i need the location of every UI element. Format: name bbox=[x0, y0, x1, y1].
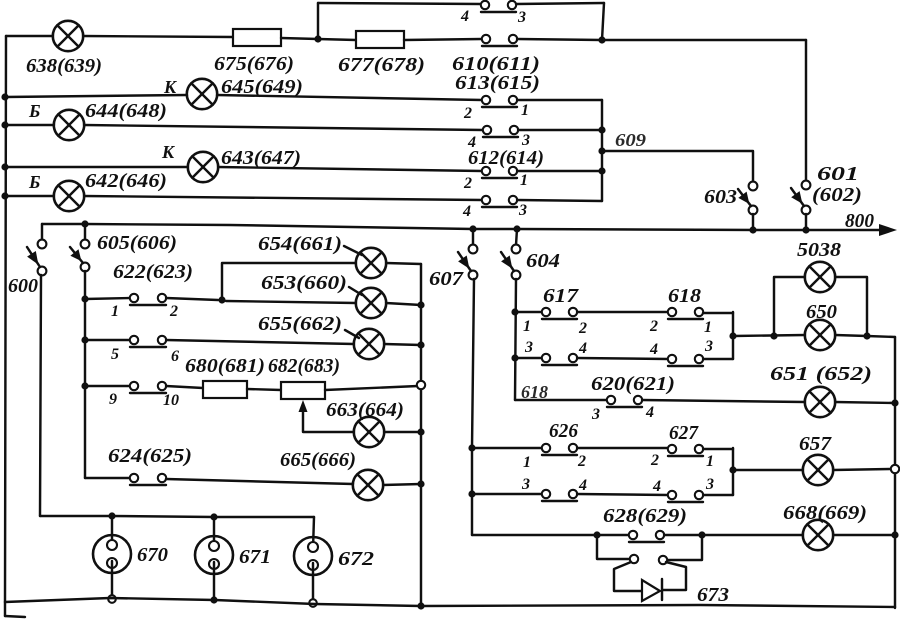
junction diode tap right bbox=[698, 531, 705, 538]
svg-text:627: 627 bbox=[669, 422, 699, 444]
wire bracket 617-618 bbox=[732, 312, 734, 359]
socket 672 bbox=[294, 537, 332, 575]
svg-text:618: 618 bbox=[668, 285, 701, 307]
lamp 657 bbox=[803, 455, 833, 485]
svg-text:10: 10 bbox=[163, 392, 179, 409]
wire row1 right bbox=[166, 298, 218, 300]
wire lamp638 left lead bbox=[6, 35, 53, 37]
svg-text:655(662): 655(662) bbox=[258, 313, 342, 335]
contact 627 pins 4-3 bbox=[668, 491, 703, 502]
wire 617 row2 left bbox=[515, 357, 542, 359]
svg-text:2: 2 bbox=[463, 105, 472, 122]
svg-text:1: 1 bbox=[523, 318, 531, 335]
contact 627 pins 2-1 bbox=[668, 445, 703, 456]
switch 605(606) bbox=[70, 240, 89, 272]
wire to lamp650 bbox=[733, 335, 805, 336]
wire resistor677 to contact610 bbox=[404, 39, 482, 40]
contact row644 pins 4-3 bbox=[483, 126, 518, 137]
svg-text:2: 2 bbox=[578, 320, 587, 337]
socket 670 bbox=[93, 535, 131, 573]
junction right node 668 bbox=[891, 531, 898, 538]
svg-text:4: 4 bbox=[462, 203, 471, 220]
svg-text:680(681): 680(681) bbox=[185, 355, 265, 377]
svg-text:4: 4 bbox=[460, 8, 469, 25]
wire row644 right bbox=[84, 125, 483, 130]
lamp 665(666) bbox=[353, 470, 383, 500]
wire switch600 top lead bbox=[41, 224, 43, 240]
contact 612(614) pins 2-1 bbox=[482, 167, 517, 178]
wire socket671 bottom lead bbox=[213, 562, 215, 600]
wire 624 to lamp665 bbox=[166, 479, 353, 484]
junction node A top bypass left bbox=[314, 35, 321, 42]
junction node B bbox=[598, 36, 605, 43]
svg-text:1: 1 bbox=[520, 172, 528, 189]
wire lamp665 right bbox=[383, 484, 421, 485]
wire row645 left bbox=[5, 95, 187, 97]
svg-text:1: 1 bbox=[523, 454, 531, 471]
wire branch to lamp654 bbox=[222, 263, 356, 300]
svg-text:642(646): 642(646) bbox=[85, 170, 167, 192]
contact 622 pins 1-2 bbox=[130, 294, 166, 305]
svg-text:663(664): 663(664) bbox=[326, 399, 404, 421]
svg-text:670: 670 bbox=[137, 544, 168, 566]
junction spine node row2 bbox=[81, 336, 88, 343]
contact 618 pins 2-1 bbox=[668, 308, 703, 319]
svg-text:626: 626 bbox=[549, 420, 578, 442]
wire switch604 top lead bbox=[516, 229, 517, 245]
junction bus node switch603 bbox=[749, 226, 756, 233]
wire row644 left bbox=[5, 124, 54, 126]
wire socket670 bottom lead bbox=[111, 561, 113, 599]
wire row645 to bracket bbox=[517, 99, 602, 101]
svg-text:4: 4 bbox=[578, 340, 587, 357]
wire row3 left bbox=[85, 385, 130, 387]
resistor 682(683) bbox=[281, 382, 325, 399]
wire row642 left bbox=[5, 195, 54, 197]
svg-text:2: 2 bbox=[649, 318, 658, 335]
junction 604 node row1 bbox=[511, 308, 518, 315]
wire top bypass left vertical bbox=[317, 3, 319, 39]
junction colnode 663 bbox=[417, 428, 424, 435]
wire resistor680 to resistor682 bbox=[247, 389, 281, 390]
contact 624(625) bbox=[130, 474, 166, 485]
wire resistor675 to node A bbox=[281, 38, 318, 39]
svg-text:638(639): 638(639) bbox=[26, 55, 102, 77]
svg-text:3: 3 bbox=[591, 406, 600, 423]
wire resistor682 right bbox=[325, 386, 418, 390]
svg-text:3: 3 bbox=[705, 476, 714, 493]
wire top bypass upper left bbox=[318, 3, 481, 4]
wire socket671 top lead bbox=[213, 517, 215, 549]
wire contact610 to node B bbox=[517, 39, 602, 40]
wire switch600 down bbox=[40, 275, 41, 516]
wire 627 row2 to bracket bbox=[703, 494, 733, 496]
wire switch601 to bus 800 bbox=[805, 214, 807, 229]
wire 626-627 row2 link bbox=[577, 494, 668, 495]
svg-text:603: 603 bbox=[704, 186, 737, 208]
contact 628(629) bbox=[629, 531, 664, 542]
svg-text:4: 4 bbox=[649, 341, 658, 358]
svg-text:Б: Б bbox=[28, 101, 40, 121]
wire socket feed line bbox=[40, 516, 314, 517]
junction bus node right column bbox=[417, 602, 424, 609]
junction bracket tap 657 bbox=[729, 466, 736, 473]
junction spine node row1 bbox=[81, 295, 88, 302]
svg-text:612(614): 612(614) bbox=[468, 147, 544, 169]
svg-text:665(666): 665(666) bbox=[280, 449, 356, 471]
svg-text:Б: Б bbox=[28, 172, 40, 192]
lamp 638(639) bbox=[53, 21, 83, 51]
wire switch604 down bbox=[515, 279, 516, 400]
svg-text:9: 9 bbox=[109, 391, 117, 408]
junction node row643 bbox=[1, 163, 8, 170]
arrowhead bus 800 bbox=[879, 224, 897, 236]
wire row645 right bbox=[217, 95, 482, 100]
svg-text:675(676): 675(676) bbox=[214, 53, 294, 75]
contact top bypass pins 4-3 bbox=[481, 1, 516, 12]
wire to lamp657 bbox=[733, 469, 803, 471]
node bus node 672 bbox=[309, 599, 317, 607]
wire row3 to resistor680 bbox=[166, 386, 203, 388]
resistor 680(681) bbox=[203, 381, 247, 398]
contact 626 pins 3-4 bbox=[542, 490, 577, 501]
wire row642 right bbox=[84, 196, 482, 200]
svg-text:К: К bbox=[163, 77, 178, 97]
contact 613(615) pins 2-1 bbox=[482, 96, 517, 107]
svg-text:607: 607 bbox=[429, 268, 464, 290]
svg-text:5038: 5038 bbox=[797, 239, 841, 261]
wire lamp657 right bbox=[833, 469, 891, 470]
svg-text:4: 4 bbox=[645, 404, 654, 421]
svg-text:4: 4 bbox=[578, 477, 587, 494]
junction bus node 671 bbox=[210, 596, 217, 603]
contact 622 pins 5-6 bbox=[130, 336, 166, 347]
svg-text:2: 2 bbox=[650, 452, 659, 469]
contact 626 pins 1-2 bbox=[542, 444, 577, 455]
svg-text:1: 1 bbox=[704, 319, 712, 336]
wire 618 row1 to bracket bbox=[703, 312, 733, 314]
svg-text:617: 617 bbox=[543, 285, 579, 307]
contact 610(611) bbox=[482, 35, 517, 46]
svg-text:3: 3 bbox=[518, 202, 527, 219]
svg-text:673: 673 bbox=[697, 584, 729, 606]
svg-text:628(629): 628(629) bbox=[603, 505, 687, 527]
junction bus node switch605 bbox=[81, 220, 88, 227]
svg-text:651 (652): 651 (652) bbox=[770, 363, 872, 385]
junction node row644 bbox=[1, 121, 8, 128]
wire row lamp653 bbox=[226, 301, 356, 303]
wire 617 row1 left bbox=[515, 311, 542, 313]
diode 673 bbox=[642, 579, 662, 601]
switch 604 bbox=[501, 245, 520, 280]
junction colnode 653 bbox=[417, 301, 424, 308]
wire 620 row left bbox=[515, 399, 607, 401]
wire top bypass right vertical bbox=[602, 3, 604, 40]
contact row642 pins 4-3 bbox=[482, 196, 517, 207]
junction bus node switch607 bbox=[469, 225, 476, 232]
junction colnode 655 bbox=[417, 341, 424, 348]
wire 628 row right bbox=[664, 534, 803, 536]
junction bus node switch601 bbox=[802, 226, 809, 233]
wire row2 to lamp655 bbox=[166, 340, 354, 344]
svg-text:605(606): 605(606) bbox=[97, 232, 177, 254]
contact 617 pins 1-2 bbox=[542, 308, 577, 319]
wire row644 to bracket bbox=[518, 129, 602, 131]
wire socket672 bottom lead bbox=[312, 563, 314, 603]
svg-text:622(623): 622(623) bbox=[113, 261, 193, 283]
wire row642 to bracket bbox=[517, 200, 602, 201]
junction feed node 670 bbox=[108, 512, 115, 519]
wire 626-627 row1 link bbox=[577, 447, 668, 449]
svg-text:609: 609 bbox=[615, 130, 646, 150]
switch 601(602) bbox=[791, 181, 810, 215]
arrowhead tap 663 bbox=[299, 400, 308, 412]
svg-text:3: 3 bbox=[524, 339, 533, 356]
svg-text:677(678): 677(678) bbox=[338, 54, 425, 76]
lamp 668(669) bbox=[803, 520, 833, 550]
wire 618 row2 to bracket bbox=[703, 358, 733, 360]
wire node A to resistor677 bbox=[318, 39, 356, 40]
wire 627 row1 to bracket bbox=[703, 448, 733, 450]
wire lamp655 right bbox=[384, 344, 421, 345]
svg-text:800: 800 bbox=[845, 210, 874, 232]
wire 626 row2 left bbox=[472, 493, 542, 495]
switch 600 bbox=[27, 240, 46, 276]
junction colnode 665 bbox=[417, 480, 424, 487]
wire lamp654 right bbox=[386, 263, 421, 264]
svg-text:3: 3 bbox=[517, 9, 526, 26]
wire bus 800 bbox=[42, 224, 884, 230]
wire row643 left bbox=[5, 166, 188, 168]
socket 671 bbox=[195, 536, 233, 574]
svg-text:672: 672 bbox=[338, 548, 374, 570]
lamp 654(661) bbox=[356, 248, 386, 278]
contact 618 pins 4-3 bbox=[668, 355, 703, 366]
svg-text:654(661): 654(661) bbox=[258, 233, 342, 255]
svg-text:4: 4 bbox=[652, 478, 661, 495]
svg-text:3: 3 bbox=[521, 476, 530, 493]
contact 617 pins 3-4 bbox=[542, 354, 577, 365]
svg-text:668(669): 668(669) bbox=[783, 502, 867, 524]
wire lamp663 tap bbox=[303, 407, 354, 432]
svg-text:650: 650 bbox=[806, 301, 837, 323]
wire lamp651 right bbox=[835, 402, 895, 403]
wire diode loop left drop bbox=[614, 562, 641, 591]
wire diode cathode lead bbox=[663, 562, 686, 590]
wire switch607 down bbox=[472, 279, 474, 535]
node connector node row3 bbox=[417, 381, 425, 389]
junction bus node switch604 bbox=[513, 225, 520, 232]
svg-text:5: 5 bbox=[111, 346, 119, 363]
lamp 642(646) bbox=[54, 181, 84, 211]
wire lamp653 right bbox=[386, 303, 421, 305]
svg-text:601: 601 bbox=[817, 163, 859, 185]
wire switch607 top lead bbox=[472, 229, 474, 245]
contact 620(621) pins 3-4 bbox=[607, 396, 642, 407]
wire 620 to lamp651 bbox=[642, 400, 805, 402]
leader 655 bbox=[345, 330, 359, 338]
wire row643 right bbox=[218, 167, 482, 171]
svg-text:604: 604 bbox=[526, 250, 560, 272]
contact 622 pins 9-10 bbox=[130, 382, 166, 393]
svg-text:600: 600 bbox=[8, 275, 38, 297]
wire bottom bus bbox=[5, 598, 895, 607]
wire node B to switch601 corner bbox=[602, 39, 806, 41]
svg-text:2: 2 bbox=[577, 453, 586, 470]
switch 607 bbox=[458, 245, 477, 280]
svg-text:6: 6 bbox=[171, 348, 179, 365]
svg-text:1: 1 bbox=[706, 453, 714, 470]
switch 603 bbox=[738, 182, 757, 215]
ground mark bottom-left bbox=[5, 616, 25, 617]
junction node 5038 right bbox=[863, 332, 870, 339]
junction right node 651 bbox=[891, 399, 898, 406]
svg-text:1: 1 bbox=[521, 102, 529, 119]
lamp 653(660) bbox=[356, 288, 386, 318]
wire left bottom tail bbox=[4, 602, 6, 616]
svg-text:644(648): 644(648) bbox=[85, 100, 167, 122]
junction 604 node row2 bbox=[511, 354, 518, 361]
leader 653 bbox=[349, 287, 362, 295]
junction 607 node row2 bbox=[468, 490, 475, 497]
svg-text:3: 3 bbox=[704, 338, 713, 355]
wire 626 row1 left bbox=[472, 447, 542, 449]
junction diode tap left bbox=[593, 531, 600, 538]
svg-text:1: 1 bbox=[111, 303, 119, 320]
wire bracket 626-627 bbox=[732, 448, 734, 495]
svg-text:(602): (602) bbox=[812, 184, 862, 206]
wire right bracket upper bbox=[601, 100, 603, 201]
wire 628 row left bbox=[472, 534, 629, 536]
svg-text:613(615): 613(615) bbox=[455, 72, 540, 94]
svg-text:К: К bbox=[161, 142, 176, 162]
svg-text:682(683): 682(683) bbox=[268, 355, 340, 377]
leader 654 bbox=[344, 246, 362, 255]
svg-text:657: 657 bbox=[799, 433, 832, 455]
wire 617-618 row1 link bbox=[577, 311, 668, 313]
resistor 675(676) bbox=[233, 29, 281, 46]
wire right column of left box bbox=[420, 264, 422, 606]
svg-text:2: 2 bbox=[463, 175, 472, 192]
lamp 651(652) bbox=[805, 387, 835, 417]
wire row2 left bbox=[85, 339, 130, 341]
wire lamp668 right bbox=[833, 534, 895, 536]
wire right edge vertical bbox=[894, 337, 896, 608]
lamp 644(648) bbox=[54, 110, 84, 140]
wire wire 609 bbox=[602, 151, 753, 182]
wire loop5038 left bbox=[774, 277, 805, 336]
node aux contact right bbox=[659, 556, 667, 564]
wire top bypass upper right bbox=[516, 3, 604, 4]
node bus node 670 bbox=[108, 595, 116, 603]
wire row1 left bbox=[85, 298, 130, 299]
lamp 663(664) bbox=[354, 417, 384, 447]
svg-text:624(625): 624(625) bbox=[108, 445, 192, 467]
lamp 650 bbox=[805, 320, 835, 350]
lamp 655(662) bbox=[354, 329, 384, 359]
svg-text:643(647): 643(647) bbox=[221, 147, 301, 169]
junction node row645 bbox=[1, 93, 8, 100]
junction node 5038 left bbox=[770, 332, 777, 339]
wire loop5038 right bbox=[835, 277, 867, 336]
junction spine node row3 bbox=[81, 382, 88, 389]
junction node row642 bbox=[1, 192, 8, 199]
wire lamp638 to resistor675 bbox=[83, 36, 233, 37]
resistor 677(678) bbox=[356, 31, 404, 48]
wire switch603 to bus 800 bbox=[752, 214, 754, 229]
svg-text:620(621): 620(621) bbox=[591, 373, 675, 395]
svg-text:653(660): 653(660) bbox=[261, 272, 347, 294]
junction 607 node row1 bbox=[468, 444, 475, 451]
wire lamp650 to right edge bbox=[835, 335, 895, 337]
node right node 657 bbox=[891, 465, 899, 473]
wire socket672 top lead bbox=[313, 517, 314, 549]
junction node lamp654 branch bbox=[218, 296, 225, 303]
wire left box spine bbox=[84, 271, 86, 478]
wire switch601 drop bbox=[805, 40, 807, 181]
junction tap node 609 bbox=[598, 147, 605, 154]
lamp 645(649) bbox=[187, 79, 217, 109]
wire socket670 top lead bbox=[111, 516, 113, 548]
junction bracket tap 650 bbox=[729, 332, 736, 339]
wire diode loop upper-right bbox=[667, 535, 702, 560]
junction bracket node row643 bbox=[598, 167, 605, 174]
junction bracket node row644 bbox=[598, 126, 605, 133]
lamp 5038 bbox=[805, 262, 835, 292]
wire switch605 top lead bbox=[84, 224, 86, 240]
wire spine corner to 624 bbox=[85, 477, 130, 479]
wire row643 to bracket bbox=[517, 170, 602, 172]
svg-text:671: 671 bbox=[239, 546, 271, 568]
node aux contact left bbox=[630, 555, 638, 563]
wire lamp663 right bbox=[384, 431, 421, 433]
junction feed node 671 bbox=[210, 513, 217, 520]
wire left edge vertical bbox=[5, 36, 6, 602]
wire 617-618 row2 link bbox=[577, 358, 668, 359]
wire diode loop upper-left bbox=[597, 535, 629, 559]
lamp 643(647) bbox=[188, 152, 218, 182]
svg-text:2: 2 bbox=[169, 303, 178, 320]
